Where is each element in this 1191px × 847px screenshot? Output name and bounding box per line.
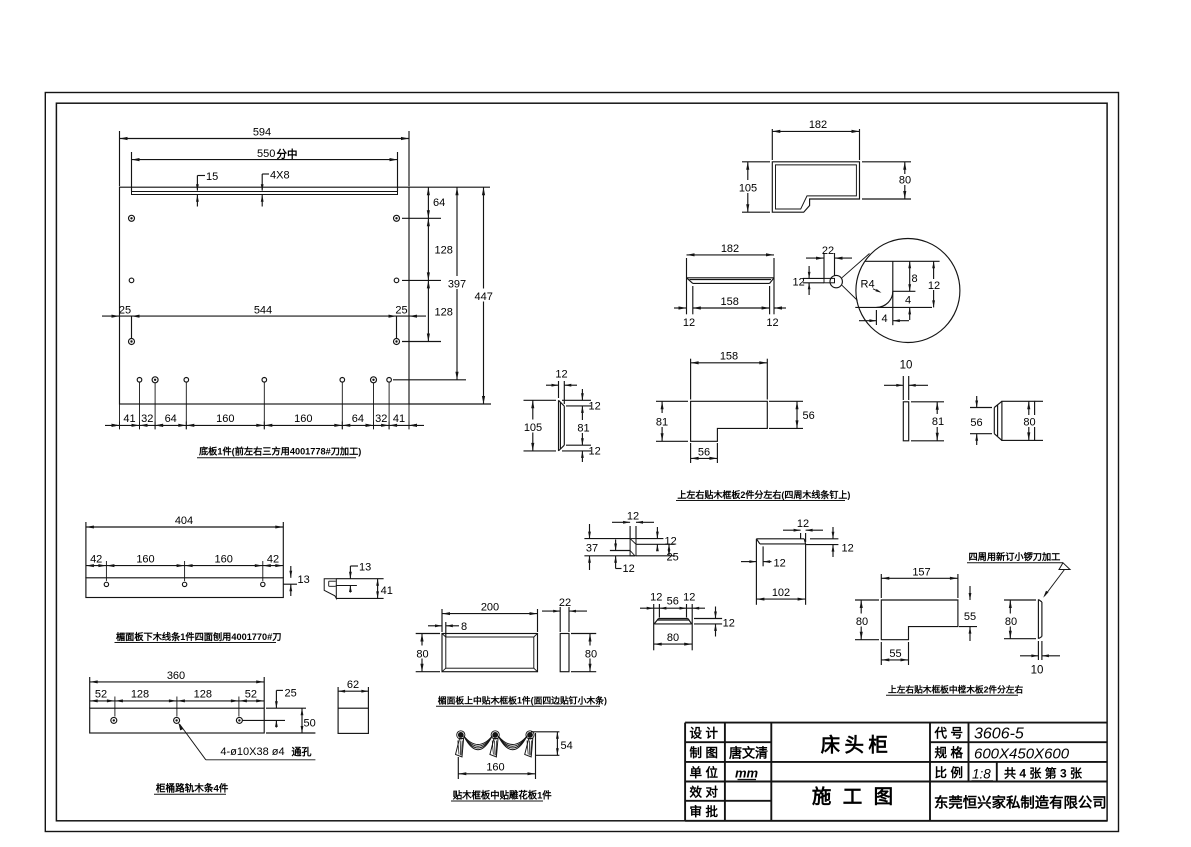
svg-text:600X450X600: 600X450X600 [974,745,1070,762]
part: top moulding strip side view [687,278,775,284]
dim 102 [756,587,805,601]
svg-text:效 对: 效 对 [690,784,719,799]
svg-text:柜桶路轨木条4件: 柜桶路轨木条4件 [155,783,229,795]
svg-text:56: 56 [970,417,982,429]
svg-text:105: 105 [739,183,757,195]
dim 12-81-12 right [562,389,601,462]
dim 12 corner right [656,527,677,551]
svg-text:397: 397 [448,279,466,291]
svg-text:42: 42 [267,554,279,566]
svg-text:4-ø10X38 ø4: 4-ø10X38 ø4 [220,746,284,758]
svg-text:楣面板上中贴木框板1件(面四边贴钉小木条): 楣面板上中贴木框板1件(面四边贴钉小木条) [438,695,607,706]
svg-text:32: 32 [141,413,153,425]
svg-text:施 工 图: 施 工 图 [812,785,896,808]
svg-text:共 4 张 第 3 张: 共 4 张 第 3 张 [1004,766,1083,781]
dim 25 runner [243,687,297,727]
svg-text:544: 544 [254,305,272,317]
svg-text:105: 105 [524,422,542,434]
svg-text:东莞恒兴家私制造有限公司: 东莞恒兴家私制造有限公司 [934,794,1107,812]
dim 12 detail [927,261,941,307]
svg-text:54: 54 [561,740,573,752]
svg-text:200: 200 [481,602,499,614]
dim 56 L right [769,401,815,428]
svg-text:80: 80 [1023,417,1035,429]
svg-text:160: 160 [136,554,154,566]
dim 4 detail vertical [905,295,911,321]
svg-text:128: 128 [194,689,212,701]
dim 182 top-right [772,119,859,160]
dim 4 detail bottom [859,310,909,325]
svg-text:8: 8 [912,273,918,285]
part: carved swag ornament [456,731,535,757]
dims 12 56 12 strip [640,592,705,651]
dim 37 [583,524,601,570]
dim 80 support left [853,600,879,640]
drawing type [812,785,896,808]
part: corner moulding end view [584,539,674,556]
scale value [972,767,994,782]
part: moulding end strip [559,400,565,451]
dim 8 frame [428,621,467,637]
svg-text:56: 56 [803,410,815,422]
svg-text:80: 80 [856,616,868,628]
svg-text:比 例: 比 例 [935,765,963,780]
part: lower moulding strip 404 [86,578,283,598]
svg-text:12: 12 [683,317,695,329]
holes row4 [137,377,391,383]
dim 158 L [691,351,768,400]
dim 12 balloon [793,266,811,295]
leader lines to detail circle [842,254,870,301]
dim 80 right [862,162,914,199]
dim 55 support bottom [881,642,908,665]
svg-text:13: 13 [298,574,310,586]
svg-text:12: 12 [793,277,805,289]
label carved panel [451,789,552,801]
svg-text:50: 50 [304,718,316,730]
dim 80 veneer [1002,600,1036,639]
part: front frame board 200 [442,634,538,672]
title block grid [685,723,1107,821]
part: frame board end view [994,401,1034,440]
svg-text:贴木框板中贴雕花板1件: 贴木框板中贴雕花板1件 [453,789,553,800]
spec value [974,745,1070,762]
svg-text:64: 64 [165,413,177,425]
svg-text:182: 182 [721,243,739,255]
dim 12 corner top [612,510,654,538]
svg-text:25: 25 [119,305,131,317]
svg-text:12: 12 [774,558,786,570]
dim 594 [120,127,410,187]
svg-text:80: 80 [1005,616,1017,628]
svg-text:3606-5: 3606-5 [974,726,1024,743]
svg-text:81: 81 [577,423,589,435]
dim 22 frame [542,597,587,632]
svg-text:52: 52 [95,689,107,701]
dim 54 swag [531,732,573,756]
svg-text:64: 64 [352,413,364,425]
part: side frame board top view [691,401,768,441]
svg-text:25: 25 [667,552,679,564]
dim 157 [881,566,958,598]
svg-text:4X8: 4X8 [270,170,290,182]
holes 404 strip [104,582,265,586]
svg-text:12: 12 [555,369,567,381]
svg-text:15: 15 [206,171,218,183]
holes row2 [129,278,399,283]
right labels [934,726,964,780]
dim 12 cstrip inner [741,558,786,570]
dim 81 L left [653,401,688,441]
svg-text:447: 447 [475,291,493,303]
dim 10 veneer [1020,641,1060,677]
svg-text:底板1件(前左右三方用4001778#刀加工): 底板1件(前左右三方用4001778#刀加工) [199,446,361,457]
dim 12 corner mid [614,540,635,576]
svg-text:12: 12 [842,543,854,555]
svg-text:102: 102 [772,587,790,599]
company name [934,794,1107,812]
holes row3 [129,339,400,345]
machining note leader [967,551,1070,598]
dim 64 [427,187,445,218]
svg-text:12: 12 [766,317,778,329]
dim 80 frame right [571,634,600,672]
svg-text:81: 81 [656,417,668,429]
part: thin veneer strip [1038,599,1042,638]
svg-text:1:8: 1:8 [972,767,991,782]
svg-text:代 号: 代 号 [934,726,963,741]
dim 360 [90,670,265,708]
svg-text:182: 182 [809,119,827,131]
svg-text:81: 81 [932,416,944,428]
bottom dim texts [123,413,405,425]
svg-text:25: 25 [395,305,407,317]
dim 447 [473,187,496,404]
dim row 25 544 25 [102,305,426,339]
dim 81 strip [911,402,947,441]
part: top rail block outline [772,162,859,212]
svg-text:41: 41 [393,413,405,425]
dim 158 strip [674,286,786,314]
svg-text:规 格: 规 格 [935,745,964,760]
svg-text:床 头 柜: 床 头 柜 [821,734,888,757]
svg-text:80: 80 [667,632,679,644]
dim 13 clip [349,562,371,593]
dim 56 L bottom [691,443,718,463]
dim 12 cstrip top [783,518,823,542]
svg-text:12: 12 [589,446,601,458]
svg-text:158: 158 [721,296,739,308]
svg-text:R4: R4 [861,279,875,291]
label side frame boards [676,489,850,501]
svg-text:mm: mm [735,766,759,781]
svg-text:4: 4 [905,295,911,307]
dim 80 strip [654,632,693,645]
label lower moulding [115,631,282,643]
svg-text:80: 80 [416,648,428,660]
dim 12 strip left [683,317,695,329]
svg-text:37: 37 [586,543,598,555]
svg-text:上左右贴木框板2件分左右(四周木线条钉上): 上左右贴木框板2件分左右(四周木线条钉上) [677,489,850,500]
product name [821,734,888,757]
dim 182 strip [687,243,775,314]
svg-text:12: 12 [928,280,940,292]
svg-text:设 计: 设 计 [690,726,719,741]
svg-text:10: 10 [1031,665,1044,677]
detail geometry [855,261,939,325]
dim 105 left [738,162,770,212]
dim 105 end [524,400,557,451]
dim 25 corner [667,544,679,563]
svg-text:分中: 分中 [277,148,298,161]
part: drawer runner strip [90,708,265,733]
detail circle [856,239,960,343]
svg-text:56: 56 [667,596,679,608]
svg-text:160: 160 [294,413,312,425]
dim 8 detail [908,261,917,291]
svg-text:404: 404 [175,515,193,527]
svg-text:上左右贴木框板中樘木板2件分左右: 上左右贴木框板中樘木板2件分左右 [888,684,1023,695]
svg-text:4: 4 [881,313,887,325]
dim 550 split-center [132,148,398,192]
dim 12 end top [546,369,577,405]
part: square block 62 [338,708,368,733]
dim 22 balloon [806,245,852,278]
svg-text:128: 128 [435,245,453,257]
svg-text:12: 12 [723,618,735,630]
svg-text:160: 160 [486,761,504,773]
svg-text:唐文清: 唐文清 [729,746,768,761]
dim 55 support right [959,586,977,641]
label front frame [436,695,607,707]
svg-text:12: 12 [683,592,695,604]
svg-text:55: 55 [889,648,901,660]
svg-text:128: 128 [435,307,453,319]
dim 4X8 leader [261,170,290,207]
svg-text:22: 22 [559,597,571,609]
dim 80 frame left [414,634,441,672]
svg-text:157: 157 [912,566,930,578]
dim 404 [86,515,283,578]
dim 10 [884,360,928,401]
leader holes note [178,723,315,760]
part: corner strip top view [756,539,805,605]
svg-text:56: 56 [698,447,710,459]
holes runner [111,717,243,723]
svg-text:单 位: 单 位 [690,765,719,780]
svg-text:550: 550 [257,148,275,160]
dim 128 upper [427,218,453,280]
svg-text:360: 360 [167,670,185,682]
svg-text:22: 22 [822,245,834,257]
dim 160 swag [458,733,535,779]
svg-text:12: 12 [623,563,635,575]
title person / unit [729,746,768,781]
dim 12 strip right [766,317,778,329]
svg-text:25: 25 [285,687,297,699]
dim 15 leader [196,171,218,207]
svg-text:160: 160 [216,413,234,425]
label middle support boards [886,684,1023,696]
border inner frame [56,103,1107,821]
dim 397 [446,187,469,380]
svg-text:通孔: 通孔 [292,746,312,759]
svg-text:制 图: 制 图 [690,745,718,760]
dims 52 128 128 52 [90,689,265,717]
svg-text:8: 8 [461,621,467,633]
label bottom board [197,446,361,458]
dim 12 strip right [694,607,735,637]
part: bottom board outline [120,187,410,404]
dim 80 end [1021,401,1044,440]
svg-text:13: 13 [359,562,371,574]
svg-text:41: 41 [381,585,393,597]
svg-text:楣面板下木线条1件四面刨用4001770#刀: 楣面板下木线条1件四面刨用4001770#刀 [116,631,281,642]
groove strip [132,192,398,195]
part: middle support board [881,600,958,640]
dim 13 404 [283,566,309,596]
svg-text:审 批: 审 批 [690,804,719,819]
svg-text:80: 80 [899,175,911,187]
border outer frame [45,93,1118,832]
part: small chamfered strip 80 [654,619,692,624]
svg-text:64: 64 [433,197,445,209]
dim 200 [442,602,538,632]
svg-text:32: 32 [375,413,387,425]
dim 12 cstrip right [806,527,854,557]
right extension lines [393,187,491,404]
dim 50 runner [266,708,316,733]
dim 56 end [967,396,992,445]
svg-text:41: 41 [123,413,135,425]
holes row1 [129,215,400,221]
svg-text:12: 12 [589,401,601,413]
svg-text:160: 160 [215,554,233,566]
svg-text:10: 10 [900,360,913,372]
svg-text:42: 42 [90,554,102,566]
sheet count [1004,766,1083,781]
part: moulding profile clip [324,579,383,599]
svg-text:12: 12 [665,536,677,548]
svg-text:52: 52 [245,689,257,701]
R4 label [861,279,882,293]
bottom chained dims 41 32 64 160 160 64 32 41 [105,383,424,430]
dim 62 [338,679,368,708]
dim 128 lower [427,280,453,341]
svg-text:55: 55 [964,611,976,623]
svg-text:594: 594 [253,127,271,139]
svg-text:128: 128 [131,689,149,701]
svg-text:12: 12 [797,518,809,530]
dim 41 clip [376,579,393,599]
svg-text:158: 158 [720,351,738,363]
detail balloon small circle [803,275,843,287]
svg-text:12: 12 [627,510,639,522]
title cell labels [690,726,719,820]
svg-text:12: 12 [650,592,662,604]
dims 42 160 160 42 [86,554,283,582]
svg-text:80: 80 [585,648,597,660]
svg-text:四周用新订小锣刀加工: 四周用新订小锣刀加工 [969,551,1061,562]
svg-text:62: 62 [347,679,359,691]
part: frame edge strip 22 [560,634,569,672]
part: thin back strip [903,402,908,441]
label drawer runner [154,783,229,795]
code value [974,726,1024,743]
